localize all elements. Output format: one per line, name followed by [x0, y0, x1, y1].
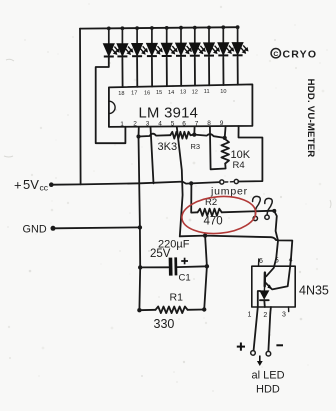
svg-text:12: 12 [192, 89, 198, 95]
svg-text:14: 14 [168, 90, 174, 96]
svg-text:CRYO: CRYO [283, 49, 318, 61]
svg-text:5: 5 [171, 120, 175, 127]
svg-text:7: 7 [195, 120, 199, 127]
svg-text:cc: cc [40, 183, 49, 193]
svg-text:4N35: 4N35 [299, 284, 329, 298]
svg-text:13: 13 [180, 90, 186, 96]
svg-text:HDD. VU-METER: HDD. VU-METER [305, 79, 316, 158]
svg-text:4: 4 [158, 121, 162, 128]
svg-text:10: 10 [220, 89, 226, 95]
svg-text:R3: R3 [191, 142, 201, 151]
svg-text:330: 330 [154, 317, 175, 331]
svg-text:5V: 5V [23, 177, 39, 192]
svg-text:6: 6 [182, 120, 186, 127]
svg-text:3: 3 [146, 121, 150, 128]
svg-text:HDD: HDD [256, 384, 280, 396]
svg-text:3K3: 3K3 [158, 141, 178, 153]
svg-text:25V: 25V [150, 248, 171, 260]
svg-text:jumper: jumper [210, 186, 248, 198]
svg-text:al LED: al LED [252, 370, 285, 382]
svg-text:9: 9 [220, 120, 224, 127]
svg-text:18: 18 [118, 91, 124, 97]
svg-text:LM 3914: LM 3914 [139, 106, 199, 122]
svg-text:8: 8 [207, 120, 211, 127]
svg-text:4: 4 [289, 257, 293, 264]
svg-text:R4: R4 [233, 160, 245, 171]
svg-text:2: 2 [263, 312, 267, 319]
svg-text:C1: C1 [179, 273, 191, 284]
svg-text:5: 5 [275, 257, 279, 264]
svg-text:17: 17 [131, 91, 137, 97]
svg-text:R1: R1 [170, 292, 184, 304]
svg-text:+: + [14, 178, 22, 193]
svg-text:470: 470 [204, 216, 223, 228]
svg-text:2: 2 [133, 121, 137, 128]
svg-text:1: 1 [120, 121, 124, 128]
svg-text:GND: GND [23, 224, 47, 236]
svg-text:11: 11 [204, 89, 210, 95]
svg-text:3: 3 [282, 311, 286, 318]
svg-text:15: 15 [156, 90, 162, 96]
svg-text:6: 6 [259, 258, 263, 265]
svg-text:1: 1 [248, 312, 252, 319]
svg-text:16: 16 [144, 90, 150, 96]
svg-text:C: C [273, 51, 278, 58]
